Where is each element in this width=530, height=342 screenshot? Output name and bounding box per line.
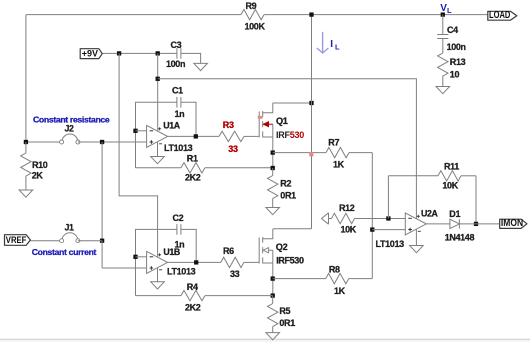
svg-text:LT1013: LT1013	[167, 267, 196, 277]
svg-text:C3: C3	[171, 40, 182, 50]
svg-text:IRF530: IRF530	[276, 130, 304, 140]
svg-text:R8: R8	[329, 265, 340, 275]
svg-text:U1B: U1B	[163, 247, 180, 257]
svg-text:0R1: 0R1	[280, 191, 296, 201]
svg-text:R11: R11	[444, 162, 459, 172]
svg-text:R9: R9	[246, 1, 257, 11]
svg-text:R7: R7	[328, 138, 339, 148]
svg-text:C4: C4	[447, 25, 458, 35]
svg-text:33: 33	[230, 269, 240, 279]
svg-text:C2: C2	[173, 213, 184, 223]
svg-text:+9V: +9V	[82, 48, 99, 59]
svg-text:Q2: Q2	[276, 242, 288, 252]
svg-text:R5: R5	[279, 306, 290, 316]
svg-text:2K: 2K	[32, 171, 44, 181]
svg-text:J1: J1	[65, 223, 75, 233]
svg-text:VREF: VREF	[6, 235, 27, 246]
svg-text:10K: 10K	[341, 224, 357, 234]
svg-text:IRF530: IRF530	[276, 255, 304, 265]
svg-text:10K: 10K	[442, 181, 458, 191]
svg-text:R12: R12	[339, 203, 355, 213]
svg-text:1n: 1n	[175, 109, 185, 119]
svg-text:R2: R2	[280, 179, 291, 189]
svg-text:LOAD: LOAD	[489, 10, 510, 21]
svg-text:R3: R3	[223, 120, 234, 130]
svg-text:J2: J2	[65, 123, 75, 133]
svg-text:D1: D1	[449, 209, 460, 219]
svg-text:1N4148: 1N4148	[445, 232, 475, 242]
svg-text:U2A: U2A	[421, 208, 439, 218]
svg-text:LT1013: LT1013	[164, 143, 193, 153]
svg-text:R1: R1	[187, 154, 198, 164]
svg-text:2K2: 2K2	[185, 173, 201, 183]
svg-text:R10: R10	[32, 160, 48, 170]
svg-text:Q1: Q1	[276, 116, 288, 126]
svg-text:R4: R4	[187, 282, 198, 292]
svg-text:R6: R6	[223, 246, 234, 256]
svg-text:33: 33	[228, 144, 238, 154]
svg-text:10: 10	[450, 70, 460, 80]
svg-text:2K2: 2K2	[185, 303, 201, 313]
svg-text:IMON: IMON	[501, 218, 523, 229]
svg-text:R13: R13	[450, 57, 466, 67]
svg-text:LT1013: LT1013	[376, 239, 405, 249]
svg-text:0R1: 0R1	[279, 318, 295, 328]
svg-text:Constant current: Constant current	[32, 247, 97, 257]
svg-text:100n: 100n	[447, 42, 466, 52]
svg-text:100n: 100n	[166, 59, 185, 69]
svg-text:U1A: U1A	[163, 120, 181, 130]
svg-text:C1: C1	[172, 86, 183, 96]
svg-text:1K: 1K	[333, 160, 345, 170]
svg-text:1K: 1K	[334, 286, 346, 296]
svg-text:100K: 100K	[245, 22, 266, 32]
